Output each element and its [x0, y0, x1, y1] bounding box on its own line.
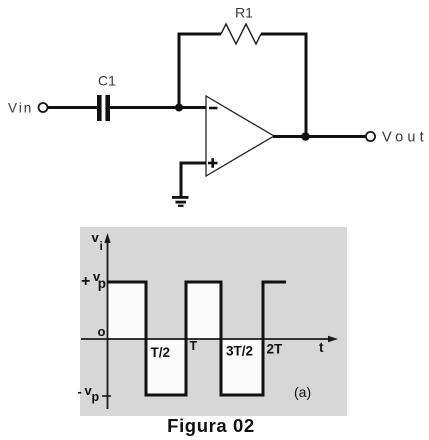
wire feedback top-left to R1 [178, 33, 222, 36]
waveform pulse fill 2 (-Vp, T/2 to T) [146, 339, 186, 395]
svg-text:C1: C1 [98, 73, 116, 89]
waveform pulse fill 4 (-Vp, 3T/2 to 2T) [221, 339, 263, 395]
capacitor C1 [97, 95, 110, 121]
wire Vin terminal to C1 [48, 106, 98, 109]
svg-text:v: v [92, 230, 100, 245]
svg-text:T/2: T/2 [151, 345, 171, 360]
tick at -vp [102, 395, 111, 397]
svg-text:3T/2: 3T/2 [226, 344, 253, 359]
svg-text:+: + [81, 273, 90, 290]
svg-text:i: i [100, 239, 103, 253]
resistor R1 [221, 24, 261, 44]
wire op-amp output to Vout [273, 135, 366, 138]
svg-text:2T: 2T [267, 342, 284, 357]
wire node A up to feedback [178, 34, 181, 108]
svg-text:R1: R1 [235, 5, 253, 21]
op-amp U1 inverting pin mark - [209, 107, 218, 110]
terminal Vout [366, 132, 375, 141]
svg-text:Figura 02: Figura 02 [167, 415, 255, 436]
ground [172, 196, 189, 207]
wire feedback down to output node [305, 34, 308, 137]
svg-text:t: t [319, 340, 324, 355]
svg-text:p: p [92, 390, 100, 404]
wire R1 to feedback top-right [261, 33, 308, 36]
svg-text:Vout: Vout [382, 130, 428, 146]
svg-text:o: o [98, 324, 106, 339]
label -vp [78, 383, 100, 404]
wire C1 to inverting input [110, 106, 206, 109]
svg-text:T: T [190, 339, 198, 353]
node A junction dot [175, 104, 183, 112]
op-amp U1 [206, 96, 274, 176]
label vi [92, 230, 103, 253]
svg-text:(a): (a) [294, 384, 311, 400]
wire non-inverting input to ground [181, 163, 206, 197]
axis t (horizontal) [81, 336, 338, 342]
svg-text:-: - [78, 384, 82, 399]
svg-text:Vin: Vin [8, 101, 33, 116]
waveform pulse fill 3 (+Vp, T to 3T/2) [186, 282, 221, 339]
waveform pulse fill 1 (+Vp, 0 to T/2) [107, 282, 146, 339]
label +vp [81, 269, 106, 291]
axis vi (vertical) [104, 233, 110, 409]
graph panel [80, 227, 347, 416]
svg-text:p: p [98, 276, 106, 291]
terminal Vin [39, 103, 48, 112]
op-amp U1 non-inverting pin mark + [208, 158, 218, 168]
node B junction dot [301, 132, 310, 141]
waveform square wave [107, 282, 286, 395]
